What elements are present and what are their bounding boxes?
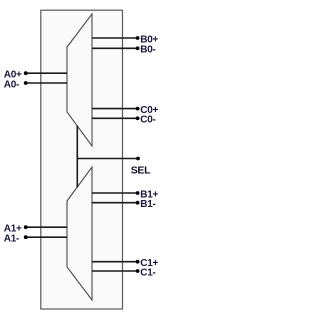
svg-text:C0-: C0- <box>140 115 155 126</box>
svg-text:SEL: SEL <box>131 164 151 176</box>
svg-text:A1-: A1- <box>4 234 19 245</box>
svg-text:A0-: A0- <box>4 79 19 90</box>
svg-text:B0-: B0- <box>140 45 155 56</box>
svg-text:C1-: C1- <box>140 267 155 278</box>
svg-text:B1-: B1- <box>140 199 155 210</box>
